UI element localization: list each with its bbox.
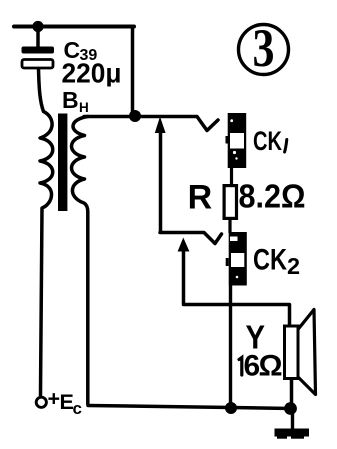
svg-text:8.2Ω: 8.2Ω	[239, 178, 306, 215]
svg-text:CK: CK	[253, 244, 287, 277]
svg-text:R: R	[188, 179, 213, 217]
svg-text:2: 2	[287, 253, 300, 279]
svg-text:3: 3	[253, 18, 275, 78]
svg-text:B: B	[62, 87, 79, 113]
svg-text:c: c	[73, 399, 82, 418]
svg-text:Ω: Ω	[259, 350, 283, 383]
svg-text:CK: CK	[253, 126, 282, 156]
svg-text:H: H	[79, 100, 89, 115]
svg-text:220μ: 220μ	[62, 58, 122, 89]
svg-text:+: +	[48, 387, 61, 411]
